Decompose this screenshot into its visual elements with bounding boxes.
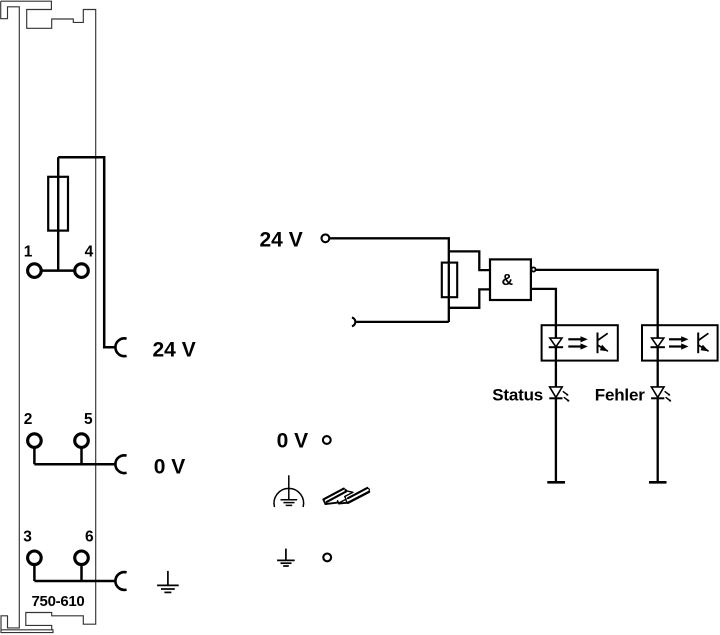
- wire stub to fuse bottom: [356, 321, 449, 323]
- fuse F2: [442, 263, 457, 298]
- node 24V terminal circle: [322, 234, 330, 242]
- ground symbol (middle, bottom): [277, 549, 295, 566]
- optocoupler U2 light arrows: [568, 336, 588, 349]
- svg-text:5: 5: [84, 411, 93, 428]
- wire Status LED to supply rail: [555, 398, 557, 482]
- terminal bar (Status): [547, 481, 565, 484]
- optocoupler U2 LED: [555, 325, 557, 338]
- wire gate output to optocoupler U3: [535, 270, 657, 325]
- wire Fehler LED to supply rail: [657, 398, 659, 482]
- wire branch to gate input A: [449, 251, 490, 270]
- svg-text:24 V: 24 V: [260, 229, 303, 252]
- pin 2: [28, 434, 42, 448]
- node earth terminal circle (middle): [323, 554, 331, 562]
- optocoupler U3 light arrows: [669, 336, 689, 349]
- svg-text:Fehler: Fehler: [595, 385, 645, 404]
- wire 24V terminal to fuse branch: [329, 238, 449, 322]
- protective earth symbol (middle): [274, 475, 304, 507]
- svg-text:&: &: [502, 272, 514, 289]
- pin 4: [75, 264, 89, 278]
- pin 6: [75, 551, 89, 565]
- open wire stub (lower input): [352, 318, 355, 327]
- svg-text:4: 4: [85, 243, 94, 260]
- node 0V terminal circle (middle): [323, 436, 331, 444]
- svg-text:0 V: 0 V: [154, 455, 186, 478]
- svg-text:1: 1: [24, 243, 33, 260]
- optocoupler U3 phototransistor: [697, 333, 699, 354]
- svg-text:Status: Status: [492, 385, 543, 404]
- optocoupler U2 phototransistor: [597, 333, 599, 354]
- svg-text:750-610: 750-610: [32, 593, 85, 610]
- wire pins 2,5 to 0V clamp: [34, 447, 116, 464]
- wire gate to optocoupler U2: [531, 289, 556, 325]
- wire branch to gate input B: [449, 289, 490, 307]
- optocoupler U3 LED: [657, 325, 659, 338]
- clamp contact 24 V (cage clamp symbol): [115, 338, 126, 356]
- clamp contact earth: [115, 572, 126, 590]
- ground symbol (next to earth clamp): [157, 571, 179, 593]
- wire from fuse top to 24V clamp: [58, 157, 116, 347]
- wire pin1-pin4: [41, 269, 74, 272]
- wire U2 to Status LED: [555, 347, 557, 387]
- svg-text:6: 6: [85, 528, 94, 545]
- pin 5: [75, 434, 89, 448]
- terminal bar (Fehler): [649, 481, 667, 484]
- gate output inverter bubble: [531, 267, 535, 271]
- svg-text:24 V: 24 V: [153, 338, 196, 361]
- fuse F1 (module internal): [57, 157, 59, 270]
- wire U3 to Fehler LED: [657, 347, 659, 387]
- module outline (750-610 body, right side profile): [1, 1, 96, 632]
- pin 1: [28, 264, 42, 278]
- DIN rail icon: [323, 488, 369, 504]
- clamp contact 0 V: [115, 455, 126, 473]
- optocoupler U3 box: [642, 325, 718, 360]
- wire pins 3,6 to earth clamp: [34, 564, 116, 581]
- pin 3: [28, 551, 42, 565]
- AND gate U1: [490, 259, 531, 300]
- svg-text:2: 2: [24, 411, 33, 428]
- optocoupler U2 box: [542, 325, 618, 360]
- svg-text:3: 3: [23, 528, 32, 545]
- svg-text:0 V: 0 V: [277, 429, 309, 452]
